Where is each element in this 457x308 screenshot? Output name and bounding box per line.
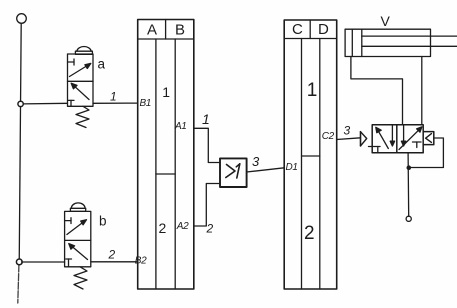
svg-text:2: 2 bbox=[108, 248, 116, 262]
svg-text:A: A bbox=[147, 22, 157, 39]
svg-text:D: D bbox=[318, 21, 329, 38]
port label A1 bbox=[174, 121, 186, 132]
valve b return spring bbox=[74, 267, 87, 289]
cell label 1 (module C/D) bbox=[307, 80, 318, 101]
module C/D cell divider bbox=[302, 155, 320, 157]
valve b top cell flow arrow bbox=[67, 220, 87, 235]
feedback wire from right pilot bbox=[411, 138, 443, 168]
wire A1 to shuttle valve upper input bbox=[194, 128, 220, 162]
shuttle valve OR symbol >1 bbox=[226, 164, 240, 178]
right cell crossing flow arrow bbox=[399, 127, 422, 150]
svg-text:1: 1 bbox=[162, 84, 170, 100]
supply line tail below node b bbox=[18, 265, 19, 303]
supply line (vertical bus) bbox=[19, 23, 21, 265]
valve bottom-left port notch bbox=[369, 147, 381, 153]
label 3 on pilot wire bbox=[344, 124, 351, 138]
label 2 on A2 wire bbox=[206, 222, 214, 236]
label D bbox=[318, 21, 329, 38]
valve b pushbutton actuator bbox=[70, 203, 85, 211]
module C/D left column line bbox=[301, 39, 303, 290]
label B bbox=[175, 22, 185, 39]
svg-text:B1: B1 bbox=[140, 98, 151, 109]
cylinder V piston bbox=[352, 29, 362, 56]
label 2 on wire to B2 bbox=[108, 248, 116, 262]
right pilot triangle bbox=[426, 134, 432, 143]
module A/B right column line bbox=[174, 39, 176, 289]
right cell down flow arrow bbox=[401, 125, 405, 146]
wire A2 to shuttle valve lower input bbox=[194, 184, 220, 227]
port label A2 bbox=[176, 221, 189, 232]
svg-text:1: 1 bbox=[202, 111, 210, 127]
valve a: 3/2 pushbutton valve body bbox=[68, 54, 94, 106]
cylinder V label bbox=[381, 13, 391, 29]
label A bbox=[147, 22, 157, 39]
valve a top cell flow arrow bbox=[70, 63, 91, 76]
module A/B header divider bbox=[165, 20, 167, 40]
label a bbox=[98, 57, 106, 72]
module A/B header bottom line bbox=[138, 38, 194, 40]
module C/D header divider bbox=[309, 20, 311, 39]
svg-text:b: b bbox=[99, 214, 107, 229]
cylinder V barrel bbox=[345, 29, 430, 56]
wire 2 (valve b output to port B2) bbox=[91, 261, 138, 263]
node junction to valve b bbox=[16, 259, 22, 265]
cell label 2 (module A/B) bbox=[159, 220, 167, 236]
left pilot triangle bbox=[361, 132, 367, 146]
svg-text:B: B bbox=[175, 22, 185, 39]
svg-text:C2: C2 bbox=[322, 131, 335, 142]
svg-text:2: 2 bbox=[159, 220, 167, 236]
label 3 on shuttle output bbox=[252, 154, 260, 169]
port label B2 bbox=[135, 255, 147, 266]
air supply source circle bbox=[17, 14, 27, 24]
module C/D header bottom line bbox=[284, 38, 337, 40]
port label D1 bbox=[286, 162, 298, 173]
valve exhaust line down bbox=[407, 153, 410, 217]
module A/B cell divider bbox=[156, 173, 175, 175]
svg-text:3: 3 bbox=[252, 154, 260, 169]
module C/D right column line bbox=[319, 39, 321, 290]
exhaust port circle bbox=[406, 216, 411, 221]
svg-text:a: a bbox=[98, 57, 106, 72]
directional valve position divider bbox=[396, 125, 398, 153]
valve a bottom cell flow arrow bbox=[71, 83, 89, 99]
junction dot bbox=[407, 165, 412, 170]
svg-text:B2: B2 bbox=[135, 255, 147, 266]
svg-text:2: 2 bbox=[304, 223, 315, 244]
left cell diagonal flow arrow bbox=[376, 127, 389, 148]
valve a pushbutton actuator bbox=[75, 46, 92, 54]
wire cylinder left port to valve bbox=[351, 57, 403, 125]
valve a top cell blocked port tick bbox=[68, 59, 75, 65]
valve b bottom cell flow arrow bbox=[69, 244, 88, 260]
svg-text:1: 1 bbox=[307, 80, 318, 101]
label 1 on wire to B1 bbox=[110, 90, 117, 104]
label 1 on A1 wire bbox=[202, 111, 210, 127]
module C/D outer frame bbox=[284, 20, 337, 289]
right cell blocked exhaust T bbox=[413, 142, 422, 148]
module A/B outer frame bbox=[138, 20, 194, 290]
wire 1 (valve a output to port B1) bbox=[93, 102, 138, 104]
svg-text:V: V bbox=[381, 13, 391, 29]
valve a return spring bbox=[76, 106, 89, 127]
shuttle valve (OR element) box bbox=[220, 158, 247, 187]
svg-text:2: 2 bbox=[206, 222, 214, 236]
svg-text:C: C bbox=[292, 21, 303, 38]
node junction to valve a bbox=[18, 101, 23, 106]
left cell down flow arrow bbox=[390, 126, 394, 147]
right pilot box bbox=[423, 132, 434, 145]
wire supply to valve a bbox=[23, 102, 67, 105]
svg-text:D1: D1 bbox=[286, 162, 298, 173]
label C bbox=[292, 21, 303, 38]
svg-text:A1: A1 bbox=[174, 121, 186, 132]
label b bbox=[99, 214, 107, 229]
directional valve U body bbox=[372, 125, 423, 153]
valve b top cell blocked port tick bbox=[65, 218, 71, 224]
wire 3 (port C2 to directional valve pilot) bbox=[337, 138, 361, 140]
wire 3 (shuttle output to port D1) bbox=[247, 168, 285, 172]
port label B1 bbox=[140, 98, 151, 109]
valve b bottom port tick bbox=[66, 259, 72, 267]
cylinder V piston rod bbox=[362, 36, 457, 46]
wire supply to valve b bbox=[22, 261, 65, 263]
module A/B left column line bbox=[155, 39, 157, 289]
svg-text:A2: A2 bbox=[176, 221, 189, 232]
cell label 1 (module A/B) bbox=[162, 84, 170, 100]
valve a bottom port tick bbox=[68, 100, 74, 106]
port label C2 bbox=[322, 131, 335, 142]
cell label 2 (module C/D) bbox=[304, 223, 315, 244]
svg-text:3: 3 bbox=[344, 124, 351, 138]
wire cylinder right port to valve bbox=[421, 57, 423, 125]
valve b: 3/2 pushbutton valve body bbox=[65, 211, 91, 266]
svg-text:1: 1 bbox=[110, 90, 117, 104]
